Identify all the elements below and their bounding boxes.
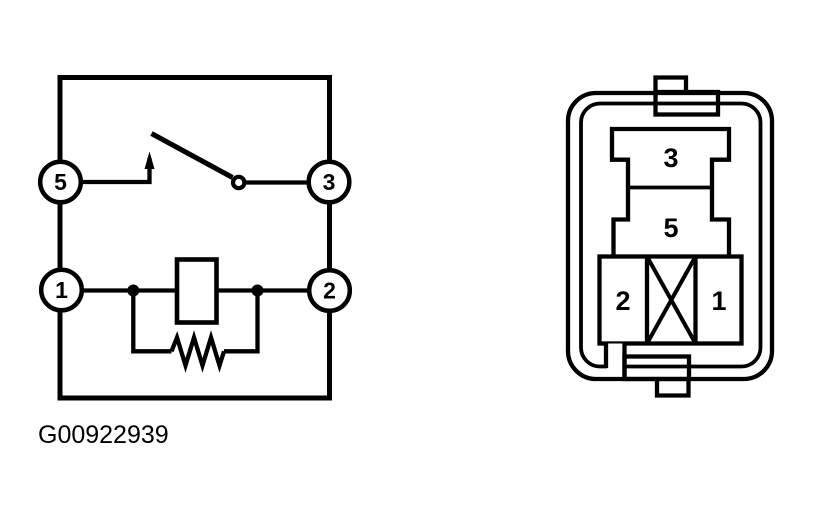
svg-text:5: 5 bbox=[54, 169, 67, 195]
svg-text:5: 5 bbox=[663, 213, 678, 243]
svg-text:2: 2 bbox=[323, 278, 336, 304]
svg-text:3: 3 bbox=[663, 143, 678, 173]
svg-text:G00922939: G00922939 bbox=[38, 421, 169, 449]
svg-text:3: 3 bbox=[323, 169, 336, 195]
svg-text:2: 2 bbox=[615, 286, 630, 316]
svg-text:1: 1 bbox=[55, 277, 68, 303]
svg-text:1: 1 bbox=[711, 286, 726, 316]
